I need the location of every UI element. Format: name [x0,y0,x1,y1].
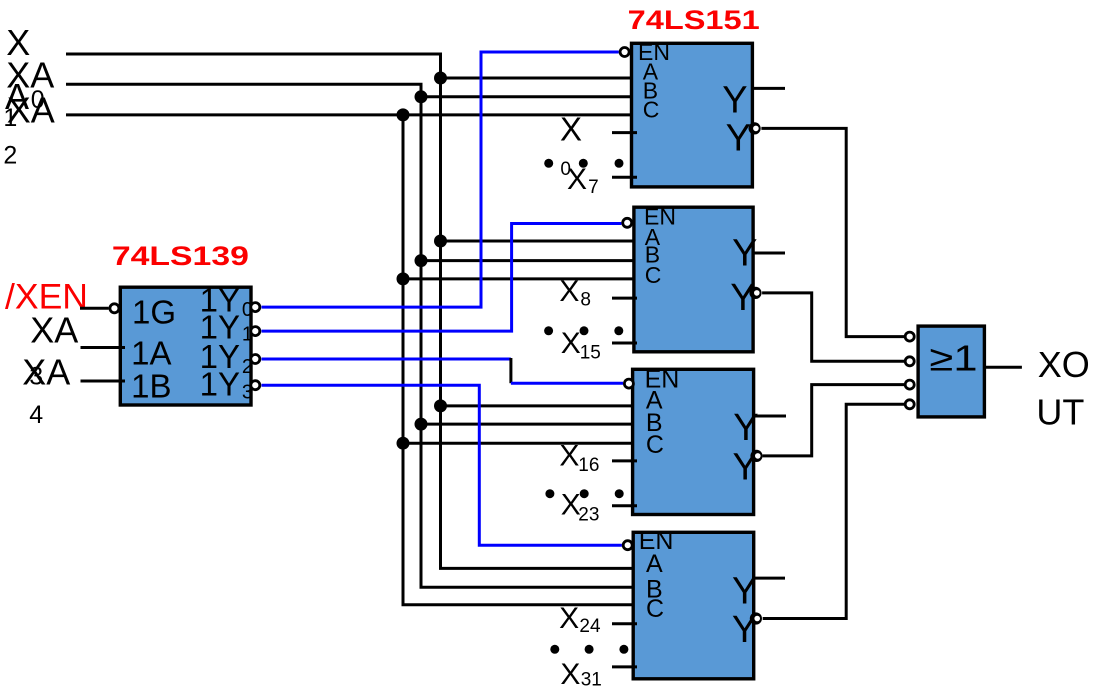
wire branch B to U2 [421,259,637,262]
svg-text:74LS151: 74LS151 [628,5,760,35]
wire Ybar U1 to OR input 1 [761,128,904,336]
svg-text:C: C [643,97,660,123]
node junction A-U2 [434,235,447,248]
pin label EN U3 [645,366,680,394]
wire Y output U3 [754,415,786,418]
svg-text:XA: XA [22,351,70,392]
wire 1Y0 to EN of U1 (blue) [262,52,619,307]
ellipsis dots U2 [544,326,623,335]
svg-text:24: 24 [579,616,601,637]
pin label 1Y1 [200,309,253,346]
pin bubble 1Y2 [251,355,260,364]
decoder U5 74LS139 body [120,287,251,405]
wire 1Y1 to EN of U2 (blue) [262,224,622,332]
wire X16 stub U3 [612,459,637,462]
label XA0 (wrapped X / A0) [5,22,45,117]
pin bubble 1Y1 [251,327,260,336]
pin bubble EN U3 [624,379,633,388]
pin bubble OR input 2 [905,357,914,366]
pin label 1Y3 [200,366,253,404]
pin label C U3 [646,431,664,459]
wire branch A to U2 [441,240,638,243]
svg-text:C: C [646,595,664,623]
label Ybar U3 [733,446,758,488]
label Ybar U1 [726,118,751,160]
pin label A U2 [645,224,661,250]
label Y U1 [722,80,747,122]
wire Ybar U4 to OR input 4 [763,404,905,618]
pin label 1Y0 [200,281,253,321]
pin bubble OR input 1 [905,332,914,341]
mux U1 74LS151 body [632,43,753,187]
node junction C-U1 [397,108,410,121]
label Ybar U4 [732,609,757,651]
svg-text:16: 16 [578,455,599,476]
wire XA4 to 1B [81,380,126,383]
decoder U5 74LS139 title [112,241,249,271]
pin label A U1 [643,59,659,85]
mux U2 74LS151 body [634,207,753,352]
svg-text:XA: XA [30,309,78,350]
node junction B-U1 [415,90,428,103]
wire branch C to U2 [403,277,637,280]
label Y U3 [733,407,758,449]
pin label A U3 [646,387,663,415]
svg-text:X: X [561,327,581,360]
label X23 [561,489,600,526]
svg-text:XO: XO [1038,344,1090,385]
pin bubble EN U1 [620,48,629,57]
wire Ybar U3 to OR input 3 [763,385,905,456]
wire branch A to U1 [441,77,638,80]
svg-text:1G: 1G [132,294,176,331]
svg-text:X: X [559,440,579,473]
label XOUT (wrapped XO / UT) [1036,344,1089,432]
pin label 1A [131,335,171,372]
label Ybar U2 [730,277,755,319]
pin label C U1 [643,97,660,123]
label Y U4 [732,570,757,612]
svg-text:Y: Y [732,570,757,612]
label X24 [559,602,601,637]
node junction B-U3 [415,418,428,431]
svg-text:8: 8 [580,289,591,310]
svg-text:23: 23 [578,504,599,525]
pin label B U3 [646,409,663,437]
pin bubble Ybar U3 [750,450,762,462]
svg-text:X: X [560,658,580,686]
svg-text:X: X [567,163,587,196]
pin label B U2 [645,242,660,268]
ellipsis dots U4 [550,645,628,654]
pin label EN U2 [644,203,676,229]
wire 1Y3 to EN of U4 (blue) [262,385,622,545]
label /XEN [5,278,88,317]
pin bubble Ybar U4 [750,612,762,624]
or-gate U6 body [918,326,984,417]
wire 1Y2 to EN of U3 (blue) [511,382,623,385]
pin label A U4 [646,550,663,578]
pin bubble EN U2 [623,218,632,227]
svg-text:1Y: 1Y [200,366,240,403]
wire X15 stub U2 [612,342,637,345]
pin bubble OR input 4 [905,400,914,409]
wire 1Y2 horizontal (blue) [262,358,511,361]
pin bubble EN U4 [623,541,632,550]
node junction A-U3 [434,399,447,412]
svg-text:7: 7 [588,177,599,198]
svg-text:UT: UT [1036,391,1084,432]
svg-text:C: C [646,431,664,459]
wire Y output U1 [752,87,785,90]
pin bubble 1Y3 [251,381,260,390]
svg-text:C: C [645,262,662,288]
wire branch A to U3 [441,404,638,407]
svg-text:31: 31 [581,670,602,686]
svg-text:2: 2 [3,141,17,169]
wire XA1 bus [66,84,637,587]
pin label 1Y2 [200,338,253,378]
pin bubble OR input 3 [905,380,914,389]
label X31 [560,658,601,686]
svg-text:4: 4 [29,401,43,429]
svg-text:X: X [559,602,579,635]
svg-text:XA: XA [7,90,55,131]
wire XA0 bus (top horizontal + vertical drop) [66,54,637,568]
svg-text:X: X [559,275,579,308]
ellipsis dots U1 [544,159,623,168]
svg-text:X: X [560,111,582,148]
pin label 1B [131,368,171,405]
wire Ybar U2 to OR input 2 [762,293,904,361]
svg-text:1A: 1A [131,335,171,372]
mux U3 74LS151 body [633,369,754,514]
label XA3 (wrapped XA / 3) [29,309,78,390]
node junction C-U3 [397,437,410,450]
pin bubble Ybar U1 [749,122,761,134]
svg-text:74LS139: 74LS139 [112,241,249,271]
pin bubble 1Y0 [251,303,260,312]
pin label B U1 [643,78,658,104]
svg-text:Y: Y [726,118,751,160]
label X8 [559,275,591,310]
node junction B-U2 [415,254,428,267]
svg-text:Y: Y [722,80,747,122]
svg-text:Y: Y [730,277,755,319]
pin label C U4 [646,595,664,623]
pin label 1G [132,294,176,331]
pin label EN U4 [639,527,674,555]
wire X31 stub U4 [612,665,637,668]
svg-text:A: A [646,550,663,578]
wire XA2 bus (straight into U1 pin C) [66,115,637,605]
label XA4 (wrapped XA / 4) [22,351,70,429]
wire X0 stub U1 [612,131,637,134]
label X16 [559,440,599,476]
wire X7 stub U1 [612,176,637,179]
wire X8 stub U2 [612,297,637,300]
pin label C U2 [645,262,662,288]
pin bubble 1G [110,304,119,313]
pin label B U4 [646,575,663,603]
ellipsis dots U3 [545,489,623,498]
wire branch B to U3 [421,423,637,426]
node junction A-U1 [434,72,447,85]
mux U1 74LS151 title [628,5,760,35]
pin label EN U1 [638,39,670,65]
wire Y output U2 [753,252,785,255]
wire X23 stub U3 [612,504,637,507]
svg-text:≥1: ≥1 [930,338,978,379]
label X15 [561,327,601,364]
label XA2 (wrapped XA / 2) [3,90,54,170]
svg-text:15: 15 [580,343,601,364]
wire branch B to U1 [421,95,637,98]
or-gate U6 label [930,338,978,379]
wire branch C to U3 [403,442,637,445]
wire X24 stub U4 [612,622,637,625]
wire XOUT output [984,366,1022,369]
svg-text:Y: Y [733,407,758,449]
mux U4 74LS151 body [633,532,754,679]
node junction C-U2 [397,272,410,285]
label XA1 (wrapped XA / 1) [3,55,54,132]
wire Y output U4 [754,577,785,580]
label X0 (wrapped X / 0) [560,111,582,180]
label Y U2 [732,232,757,274]
wire XA3 to 1A [81,346,126,349]
wire /XEN to 1G [80,307,109,310]
svg-text:1B: 1B [131,368,171,405]
label X7 [567,163,599,198]
pin bubble Ybar U2 [749,287,761,299]
wire 1Y2 connector (black vertical) [509,358,512,383]
